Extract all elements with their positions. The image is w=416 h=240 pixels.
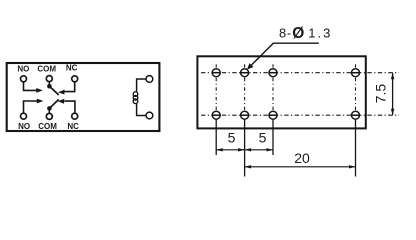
svg-text:NC: NC <box>67 122 79 131</box>
hole 1 top row <box>212 69 220 77</box>
dim 5 left <box>216 148 244 151</box>
pcb outline <box>197 56 365 128</box>
pin NO top <box>21 76 27 82</box>
armature bottom <box>49 99 58 108</box>
svg-text:20: 20 <box>294 150 310 166</box>
pin COM bottom <box>46 113 52 119</box>
svg-text:5: 5 <box>259 130 267 146</box>
wire NO top contact <box>24 82 43 93</box>
svg-text:NO: NO <box>18 122 30 131</box>
label 8-d1.3 <box>279 25 332 42</box>
centerline col 4 <box>355 64 357 110</box>
coil pin top <box>146 76 153 83</box>
hole 1 bottom row <box>212 111 220 119</box>
centerline col 1 <box>215 64 217 110</box>
coil pin bottom <box>146 112 153 119</box>
coil wire <box>137 79 146 116</box>
hole 2 bottom row <box>241 111 249 119</box>
node COM top <box>47 82 52 89</box>
extension line col 2 <box>244 120 246 177</box>
centerline top row <box>201 72 399 74</box>
dim 5 right <box>245 148 273 151</box>
leader line 8-d1.3 <box>247 43 319 69</box>
wire NC top contact <box>58 82 75 95</box>
hole 4 top row <box>352 69 360 77</box>
svg-text:8-: 8- <box>279 26 292 41</box>
svg-text:7.5: 7.5 <box>372 84 388 104</box>
pin NO bottom <box>21 113 27 119</box>
extension line col 3 <box>272 120 274 155</box>
wire NO bottom contact <box>24 99 44 114</box>
extension line col 4 <box>355 120 357 177</box>
centerline col 2 <box>244 64 246 110</box>
dim 7.5 line <box>391 73 394 116</box>
svg-text:NO: NO <box>17 65 29 74</box>
centerline bottom row <box>201 114 399 116</box>
hole 4 bottom row <box>352 111 360 119</box>
wire NC bottom contact <box>58 99 75 113</box>
pin NC top <box>72 76 78 82</box>
dim 20 <box>245 165 356 168</box>
svg-text:COM: COM <box>38 122 57 131</box>
svg-text:NC: NC <box>66 64 78 73</box>
armature top <box>49 86 58 95</box>
svg-text:Ø: Ø <box>292 25 304 42</box>
node COM bottom <box>47 106 52 113</box>
svg-text:COM: COM <box>37 64 56 73</box>
pin NC bottom <box>72 113 78 119</box>
pin COM top <box>46 76 52 82</box>
extension line col 1 <box>215 120 217 155</box>
svg-text:1.3: 1.3 <box>308 26 332 41</box>
coil winding <box>133 92 138 104</box>
hole 3 bottom row <box>269 111 277 119</box>
hole 2 top row <box>241 69 249 77</box>
svg-text:5: 5 <box>228 130 236 146</box>
hole 3 top row <box>269 69 277 77</box>
centerline col 3 <box>272 64 274 110</box>
relay body outline <box>7 63 160 131</box>
